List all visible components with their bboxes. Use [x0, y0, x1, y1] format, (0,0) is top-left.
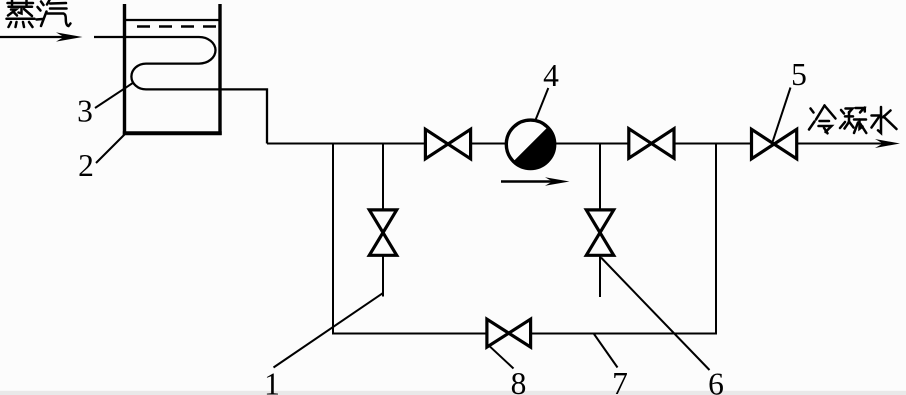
steam inlet wire: [0, 36, 66, 38]
tank water dashed line: [137, 25, 220, 27]
leader line for label 1: [274, 293, 383, 367]
char qi water radical: [41, 2, 44, 6]
leader line for label 2: [96, 135, 125, 164]
wire below valve 6: [599, 255, 601, 297]
valve 6: [586, 210, 613, 255]
valve on branch (pointed by leader 1): [369, 210, 396, 255]
scan edge shading at bottom: [0, 391, 906, 395]
valve 8: [487, 319, 531, 347]
char zheng middle hook: [19, 8, 22, 14]
valve 5: [752, 129, 797, 159]
wire valve B to valve 5: [674, 143, 752, 145]
char qi right part: [47, 0, 50, 5]
char zheng second bar: [9, 6, 33, 9]
branch wire down to valve 1: [382, 144, 384, 212]
svg-text:5: 5: [791, 57, 807, 92]
leader line for label 6: [601, 258, 710, 371]
tank vessel 2 right wall: [218, 4, 221, 135]
svg-text:3: 3: [77, 94, 93, 129]
flow direction arrow under flowmeter: [501, 180, 553, 182]
char zheng long bar: [7, 18, 35, 21]
tank vessel 2 left wall: [123, 4, 126, 135]
svg-text:6: 6: [708, 367, 724, 395]
branch wire down at x=716: [715, 144, 717, 335]
leader line for label 5: [773, 88, 791, 142]
condensate outlet arrowhead: [875, 139, 900, 148]
char shui: [878, 107, 881, 133]
branch wire down at x=333: [332, 144, 334, 335]
tank water level line: [123, 19, 221, 21]
char leng ling roof: [816, 106, 825, 120]
text 冷凝水 (condensate water) hand-drawn: [809, 106, 897, 134]
main pipe wire: coil drop to valve A: [267, 143, 426, 145]
svg-text:4: 4: [543, 58, 559, 93]
text 蒸汽 (steam) hand-drawn: [7, 0, 71, 27]
leader line for label 3: [95, 83, 134, 109]
wire below branch valve: [382, 255, 384, 296]
tank vessel 2 bottom: [123, 131, 222, 135]
leader line for label 8: [489, 346, 514, 369]
wire valve A to flowmeter 4: [470, 143, 506, 145]
svg-text:1: 1: [264, 367, 280, 395]
char ning middle part: [846, 109, 853, 113]
char ning right part: [856, 108, 865, 113]
char leng ling bottom: [819, 126, 832, 132]
valve B (unnumbered) on main line: [629, 129, 674, 159]
flowmeter 4 black half: [513, 127, 554, 168]
valve A (unnumbered) on main line: [425, 129, 470, 159]
bypass bottom wire 7 right segment: [531, 333, 717, 335]
flowmeter 4 circle: [506, 120, 554, 168]
leader line for label 4: [535, 88, 548, 120]
char ning ice radical: [841, 110, 844, 114]
branch wire down to valve 6: [599, 144, 601, 212]
bypass bottom wire 7 left segment: [332, 333, 488, 335]
condensate outlet wire: [797, 143, 885, 145]
wire flowmeter 4 to valve B: [555, 143, 629, 145]
char leng ice radical: [811, 109, 814, 113]
svg-text:7: 7: [612, 366, 628, 395]
steam inlet arrowhead: [56, 32, 83, 41]
char zheng four dots: [9, 22, 12, 27]
coil 3 pipe: [94, 37, 267, 144]
char zheng top bar: [8, 2, 34, 5]
leader line for label 7: [594, 334, 618, 368]
svg-text:2: 2: [78, 148, 94, 183]
svg-text:8: 8: [511, 366, 527, 395]
